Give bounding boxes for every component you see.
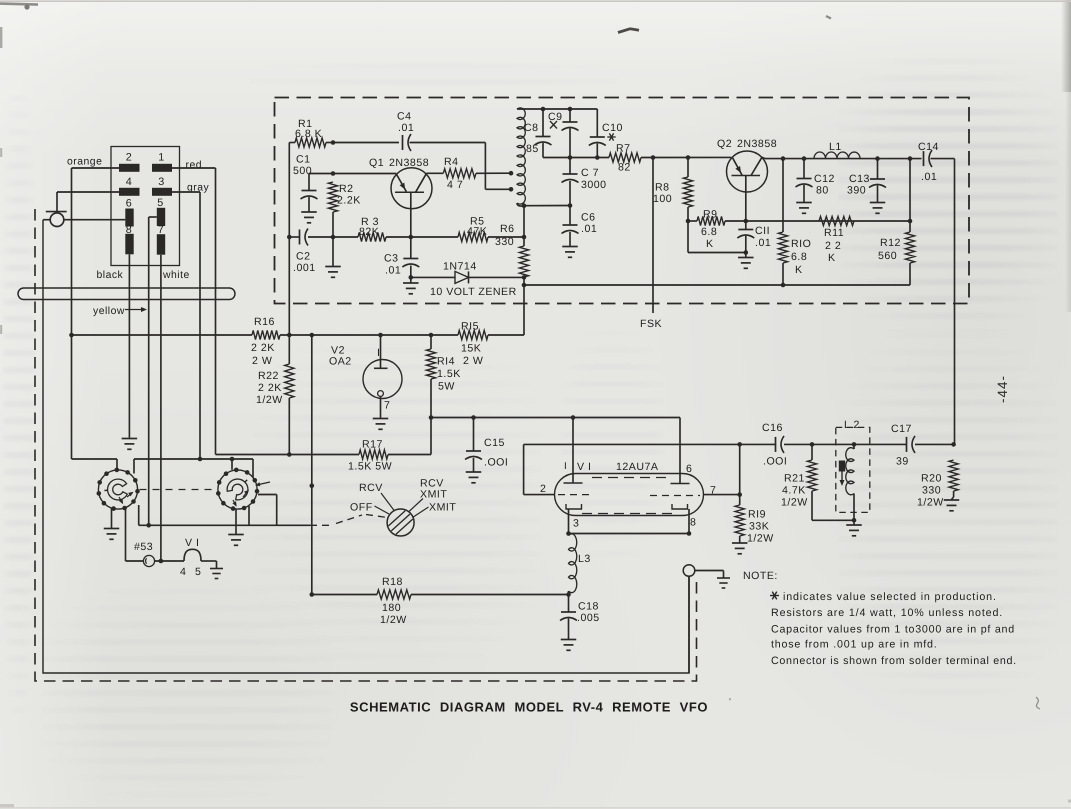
svg-text:1/2W: 1/2W xyxy=(747,533,774,545)
svg-text:6.8: 6.8 xyxy=(791,251,807,263)
svg-text:K: K xyxy=(828,252,836,264)
svg-text:C16: C16 xyxy=(762,422,783,434)
svg-text:2N3858: 2N3858 xyxy=(737,138,777,150)
svg-text:Q1: Q1 xyxy=(369,157,384,169)
svg-text:1/2W: 1/2W xyxy=(917,497,944,509)
svg-text:5: 5 xyxy=(157,197,164,209)
svg-text:12AU7A: 12AU7A xyxy=(616,461,659,473)
svg-text:C3: C3 xyxy=(384,253,399,265)
svg-text:2N3858: 2N3858 xyxy=(389,157,429,169)
svg-text:C17: C17 xyxy=(891,423,912,435)
svg-text:2 2: 2 2 xyxy=(825,240,841,252)
svg-text:RI4: RI4 xyxy=(437,356,455,368)
svg-text:.01: .01 xyxy=(385,265,401,277)
svg-text:1/2W: 1/2W xyxy=(781,497,808,509)
svg-text:82: 82 xyxy=(618,162,631,174)
svg-text:390: 390 xyxy=(847,185,866,197)
svg-text:black: black xyxy=(97,270,124,281)
svg-text:7: 7 xyxy=(158,224,165,236)
svg-text:500: 500 xyxy=(293,165,312,177)
svg-text:': ' xyxy=(729,697,731,708)
svg-text:#53: #53 xyxy=(134,541,153,553)
svg-text:330: 330 xyxy=(495,236,514,248)
svg-text:Resistors are 1/4 watt, 10%: Resistors are 1/4 watt, 10% unless noted… xyxy=(771,607,1003,619)
svg-text:RI9: RI9 xyxy=(748,509,766,521)
svg-text:5W: 5W xyxy=(438,381,455,393)
svg-text:RCV: RCV xyxy=(359,482,383,494)
svg-text:C15: C15 xyxy=(484,437,505,449)
svg-text:47K: 47K xyxy=(467,226,487,238)
svg-text:C1: C1 xyxy=(296,154,311,166)
svg-text:CII: CII xyxy=(755,225,770,237)
svg-text:RI5: RI5 xyxy=(461,321,479,333)
svg-text:.01: .01 xyxy=(921,171,937,183)
svg-text:V I: V I xyxy=(185,537,199,549)
svg-text:R11: R11 xyxy=(824,227,844,239)
svg-text:8: 8 xyxy=(126,224,133,236)
svg-text:yellow: yellow xyxy=(93,306,125,317)
svg-text:SCHEMATIC DIAGRAM MODEL RV-: SCHEMATIC DIAGRAM MODEL RV-4 REMOTE VFO xyxy=(350,700,708,715)
svg-text:2 W: 2 W xyxy=(252,355,272,367)
svg-text:1.5K: 1.5K xyxy=(437,368,461,380)
svg-text:1/2W: 1/2W xyxy=(256,394,283,406)
svg-text:3: 3 xyxy=(573,518,579,530)
svg-text:.OOI: .OOI xyxy=(484,457,508,469)
svg-text:Q2: Q2 xyxy=(717,138,732,150)
svg-text:330: 330 xyxy=(922,485,941,497)
svg-text:6: 6 xyxy=(686,463,692,475)
svg-text:C4: C4 xyxy=(397,111,412,123)
svg-text:85: 85 xyxy=(526,143,539,155)
svg-text:2 W: 2 W xyxy=(463,355,483,367)
svg-text:C8: C8 xyxy=(524,122,539,134)
svg-text:Connector is shown from so: Connector is shown from solder terminal … xyxy=(771,655,1017,667)
svg-text:.01: .01 xyxy=(398,122,414,134)
svg-text:560: 560 xyxy=(878,250,897,262)
svg-text:orange: orange xyxy=(67,157,102,168)
svg-text:C10: C10 xyxy=(602,122,623,134)
svg-text:K: K xyxy=(706,238,714,250)
svg-text:OA2: OA2 xyxy=(329,356,352,368)
svg-text:2: 2 xyxy=(126,152,133,164)
svg-text:1: 1 xyxy=(158,152,165,164)
svg-text:4.7K: 4.7K xyxy=(782,485,806,497)
svg-text:6: 6 xyxy=(126,198,133,210)
svg-text:.01: .01 xyxy=(581,223,597,235)
svg-text:R20: R20 xyxy=(921,473,942,485)
svg-text:82K: 82K xyxy=(359,226,379,238)
svg-text:7: 7 xyxy=(384,400,390,412)
svg-text:R17: R17 xyxy=(362,439,383,451)
svg-text:C18: C18 xyxy=(578,601,599,613)
svg-text:5: 5 xyxy=(195,566,201,578)
svg-text:6.8 K: 6.8 K xyxy=(295,128,322,140)
svg-text:2.2K: 2.2K xyxy=(337,195,361,207)
svg-text:L1: L1 xyxy=(829,141,842,153)
svg-text:100: 100 xyxy=(653,193,672,205)
svg-text:R6: R6 xyxy=(500,223,515,235)
svg-text:indicates value selected in: indicates value selected in production. xyxy=(783,591,997,603)
svg-text:4 7: 4 7 xyxy=(447,179,463,191)
svg-text:XMIT: XMIT xyxy=(420,489,447,501)
svg-text:I: I xyxy=(564,461,567,472)
svg-text:33K: 33K xyxy=(749,521,769,533)
svg-text:R18: R18 xyxy=(382,576,403,588)
svg-text:OFF: OFF xyxy=(350,502,373,514)
svg-text:4: 4 xyxy=(180,566,186,578)
svg-text:4: 4 xyxy=(126,176,133,188)
svg-text:-44-: -44- xyxy=(995,375,1010,403)
svg-text:R4: R4 xyxy=(444,156,459,168)
svg-text:.005: .005 xyxy=(577,612,600,624)
svg-text:FSK: FSK xyxy=(640,318,662,330)
svg-text:I: I xyxy=(377,347,380,359)
svg-text:Capacitor values from 1 to30: Capacitor values from 1 to3000 are in pf… xyxy=(771,624,1015,636)
svg-text:red: red xyxy=(186,160,203,171)
svg-text:6.8: 6.8 xyxy=(701,226,717,238)
svg-text:1/2W: 1/2W xyxy=(380,614,407,626)
svg-text:C14: C14 xyxy=(918,141,939,153)
svg-text:C 7: C 7 xyxy=(581,167,599,179)
svg-text:L3: L3 xyxy=(578,553,591,565)
svg-text:R9: R9 xyxy=(703,209,718,221)
svg-text:R12: R12 xyxy=(880,237,901,249)
svg-text:10 VOLT ZENER: 10 VOLT ZENER xyxy=(430,286,517,298)
svg-text:C6: C6 xyxy=(581,212,596,224)
svg-text:80: 80 xyxy=(816,185,829,197)
svg-text:R22: R22 xyxy=(258,370,279,382)
svg-text:XMIT: XMIT xyxy=(429,502,456,514)
svg-text:R2: R2 xyxy=(339,183,354,195)
svg-text:K: K xyxy=(795,264,803,276)
svg-text:R8: R8 xyxy=(655,182,670,194)
svg-text:1N714: 1N714 xyxy=(443,261,477,273)
svg-text:2 2K: 2 2K xyxy=(251,342,275,354)
svg-text:2: 2 xyxy=(540,483,546,495)
svg-text:R16: R16 xyxy=(254,316,275,328)
svg-text:C12: C12 xyxy=(814,173,835,185)
svg-text:NOTE:: NOTE: xyxy=(743,570,778,582)
svg-text:15K: 15K xyxy=(461,343,481,355)
svg-text:3: 3 xyxy=(158,176,165,188)
svg-text:those from .001 up are in m: those from .001 up are in mfd. xyxy=(771,639,938,651)
svg-text:8: 8 xyxy=(690,517,696,529)
svg-text:C13: C13 xyxy=(849,173,870,185)
svg-text:RIO: RIO xyxy=(791,238,811,250)
svg-text:R21: R21 xyxy=(784,473,805,485)
svg-text:.OOI: .OOI xyxy=(763,456,787,468)
svg-text:R7: R7 xyxy=(616,142,631,154)
svg-text:.001: .001 xyxy=(293,262,316,274)
svg-text:V I: V I xyxy=(577,461,591,473)
svg-text:C2: C2 xyxy=(296,251,311,263)
svg-text:white: white xyxy=(162,270,190,281)
svg-text:39: 39 xyxy=(896,456,909,468)
svg-text:2 2K: 2 2K xyxy=(258,382,282,394)
svg-text:3000: 3000 xyxy=(581,179,607,191)
svg-text:.01: .01 xyxy=(755,237,771,249)
svg-text:1.5K 5W: 1.5K 5W xyxy=(348,461,392,473)
svg-text:L 2: L 2 xyxy=(844,419,860,431)
svg-text:180: 180 xyxy=(382,602,401,614)
